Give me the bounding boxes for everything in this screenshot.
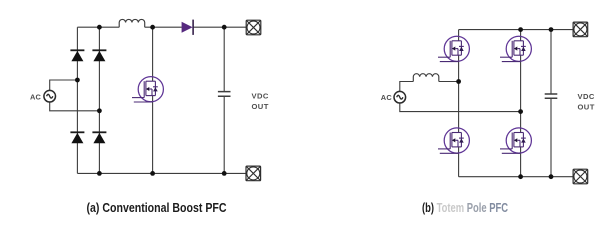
svg-text:OUT: OUT: [252, 102, 269, 111]
svg-text:(b) Totem Pole PFC: (b) Totem Pole PFC: [422, 200, 508, 215]
svg-text:AC: AC: [30, 93, 42, 102]
svg-text:(a) Conventional Boost PFC: (a) Conventional Boost PFC: [87, 200, 227, 215]
svg-text:VDC: VDC: [578, 92, 595, 101]
svg-text:VDC: VDC: [252, 91, 269, 100]
svg-text:OUT: OUT: [578, 102, 595, 111]
svg-text:AC: AC: [381, 93, 393, 102]
